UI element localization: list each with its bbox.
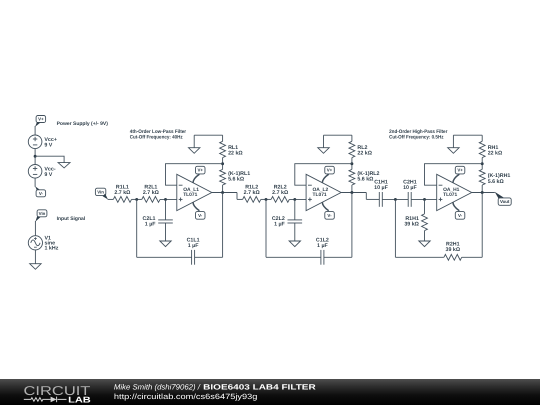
resistor R1H1 (404, 199, 427, 241)
wire (351, 193, 353, 258)
node F3 (481, 162, 484, 165)
svg-text:1 kHz: 1 kHz (45, 245, 59, 251)
node V+ (35, 116, 46, 127)
wire (462, 256, 483, 258)
wire (236, 193, 238, 200)
resistor RL2 (349, 141, 373, 157)
svg-text:9 V: 9 V (44, 172, 52, 178)
wire (34, 221, 36, 236)
svg-text:V+: V+ (327, 168, 333, 173)
svg-text:1 µF: 1 µF (145, 222, 156, 228)
ground (58, 163, 70, 168)
wire (411, 198, 437, 200)
wire (366, 198, 379, 200)
svg-text:Power Supply (+/- 9V): Power Supply (+/- 9V) (57, 121, 109, 127)
wire (481, 185, 483, 193)
svg-text:http://circuitlab.com/cs6s6475: http://circuitlab.com/cs6s6475jy93g (114, 392, 258, 401)
svg-text:LAB: LAB (68, 394, 91, 404)
wire (output) (212, 192, 237, 194)
wire (222, 185, 224, 193)
wire (34, 250, 36, 264)
svg-text:Cut-Off Frequency: 40Hz: Cut-Off Frequency: 40Hz (130, 134, 183, 140)
wire (108, 198, 114, 200)
node V- (35, 186, 46, 197)
capacitor C1L2 (316, 238, 329, 265)
ground (30, 264, 41, 270)
node F1 (221, 162, 224, 165)
resistor R2L2 (271, 184, 289, 202)
wire (output) (472, 192, 495, 194)
wire (261, 198, 271, 200)
svg-text:V-: V- (458, 213, 463, 218)
wire (395, 199, 444, 257)
wire (feedback) (166, 164, 223, 186)
ground (448, 135, 459, 153)
node Vin (source) (35, 210, 46, 222)
svg-text:10 µF: 10 µF (374, 185, 388, 191)
svg-text:10 µF: 10 µF (403, 185, 417, 191)
svg-text:9 V: 9 V (44, 143, 52, 149)
svg-text:TL071: TL071 (183, 192, 197, 198)
wire (35, 156, 64, 162)
wire (266, 199, 321, 257)
svg-text:V+: V+ (197, 168, 203, 173)
capacitor C1L1 (187, 238, 200, 265)
svg-text:2.7 kΩ: 2.7 kΩ (114, 190, 131, 196)
resistor R2L1 (142, 184, 160, 202)
node Vin (input flag) (95, 188, 108, 199)
wire (195, 256, 223, 258)
svg-text:Input Signal: Input Signal (57, 216, 86, 222)
label Input Signal (57, 216, 86, 222)
capacitor C1H1 (374, 180, 388, 207)
svg-text:2.7 kΩ: 2.7 kΩ (143, 190, 160, 196)
svg-text:39 kΩ: 39 kΩ (404, 222, 419, 228)
resistor (K-1)RH1 (479, 169, 510, 185)
ground (189, 135, 200, 153)
wire (137, 199, 192, 257)
node V+ (OA_H1) (453, 166, 465, 183)
wire (222, 193, 224, 258)
ground (419, 241, 430, 247)
svg-text:22 kΩ: 22 kΩ (228, 151, 243, 157)
node B3 (423, 198, 426, 201)
svg-text:1 µF: 1 µF (188, 243, 199, 249)
node Vout (495, 192, 512, 206)
svg-text:Mike Smith (dshi79062) /: Mike Smith (dshi79062) / (114, 383, 201, 392)
node power junction (34, 155, 37, 158)
svg-text:39 kΩ: 39 kΩ (446, 247, 461, 253)
svg-text:TL071: TL071 (313, 192, 327, 198)
voltage source V1 (28, 235, 58, 251)
resistor R1L2 (243, 184, 261, 202)
svg-text:V-: V- (198, 213, 203, 218)
wire (382, 198, 408, 200)
node V- (OA_L2) (322, 202, 334, 219)
ground (318, 135, 329, 153)
svg-text:V+: V+ (457, 168, 463, 173)
ground (160, 241, 171, 247)
node V+ (OA_L1) (193, 166, 205, 183)
svg-text:TL071: TL071 (443, 192, 457, 198)
voltage source Vcc+ (28, 135, 57, 149)
wire (feedback) (425, 164, 483, 186)
svg-text:2.7 kΩ: 2.7 kΩ (272, 190, 289, 196)
svg-text:Vin: Vin (39, 211, 46, 216)
op-amp OA_L2 (306, 174, 341, 210)
svg-text:5.6 kΩ: 5.6 kΩ (357, 176, 374, 182)
svg-text:Cut-Off Frequency: 0.5Hz: Cut-Off Frequency: 0.5Hz (389, 134, 444, 140)
node A3 (394, 198, 397, 201)
op-amp OA_L1 (177, 174, 212, 210)
wire (160, 198, 177, 200)
node O3 (481, 191, 484, 194)
capacitor C2H1 (403, 180, 417, 207)
svg-text:BIOE6403 LAB4 FILTER: BIOE6403 LAB4 FILTER (203, 383, 316, 392)
capacitor C2L2 (272, 199, 302, 241)
label 2nd-Order High-Pass Filter (389, 129, 447, 140)
wire (132, 198, 142, 200)
label 4th-Order Low-Pass Filter (130, 129, 186, 140)
svg-text:Vin: Vin (97, 190, 104, 195)
ground (289, 241, 300, 247)
wire (324, 256, 352, 258)
wire (194, 135, 222, 141)
node A1 (135, 198, 138, 201)
wire (324, 135, 352, 141)
node V+ (OA_L2) (322, 166, 334, 183)
svg-text:5.6 kΩ: 5.6 kΩ (488, 179, 505, 185)
voltage source Vcc- (28, 165, 56, 179)
node F2 (350, 162, 353, 165)
wire (351, 185, 353, 193)
logo icon resistor-diode (24, 397, 67, 403)
op-amp OA_H1 (437, 174, 472, 210)
svg-text:22 kΩ: 22 kΩ (488, 151, 503, 157)
wire (34, 149, 36, 165)
wire (222, 158, 224, 170)
wire (output) (341, 192, 366, 194)
resistor R2H1 (444, 241, 462, 260)
node B1 (164, 198, 167, 201)
footer bar (0, 379, 540, 405)
svg-text:V+: V+ (38, 117, 44, 122)
wire (481, 193, 483, 258)
node V- (OA_H1) (453, 202, 465, 219)
node A2 (265, 198, 268, 201)
wire (289, 198, 306, 200)
wire (481, 158, 483, 170)
svg-text:V-: V- (327, 213, 332, 218)
resistor RH1 (479, 141, 503, 157)
node O1 (221, 191, 224, 194)
wire (237, 198, 243, 200)
node V- (OA_L1) (193, 202, 205, 219)
svg-text:1 µF: 1 µF (274, 222, 285, 228)
capacitor C2L1 (143, 199, 173, 241)
svg-text:V-: V- (39, 191, 44, 196)
wire (351, 158, 353, 170)
svg-text:22 kΩ: 22 kΩ (357, 151, 372, 157)
label Power Supply (57, 121, 109, 127)
wire (34, 178, 36, 187)
node B2 (293, 198, 296, 201)
resistor RL1 (220, 141, 244, 157)
wire (453, 135, 482, 141)
svg-text:5.6 kΩ: 5.6 kΩ (228, 176, 245, 182)
wire (365, 193, 367, 200)
svg-text:Vout: Vout (500, 199, 510, 204)
resistor (K-1)RL1 (220, 169, 251, 185)
resistor R1L1 (113, 184, 131, 202)
wire (feedback) (295, 164, 352, 186)
node O2 (350, 191, 353, 194)
svg-text:2.7 kΩ: 2.7 kΩ (244, 190, 261, 196)
svg-text:1 µF: 1 µF (317, 243, 328, 249)
resistor (K-1)RL2 (349, 169, 380, 185)
wire (34, 126, 36, 135)
